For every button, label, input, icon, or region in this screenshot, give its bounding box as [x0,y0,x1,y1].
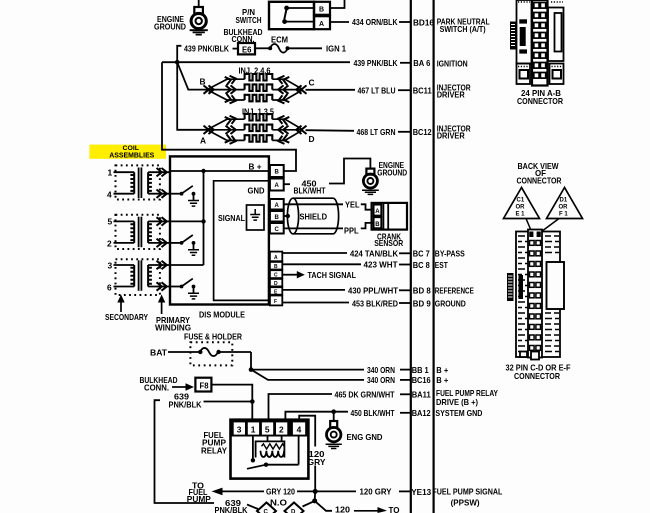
pin BC16 / B+ [412,375,449,385]
pin BA 6 / IGNITION [413,58,467,69]
svg-text:DIS MODULE: DIS MODULE [199,309,245,319]
svg-text:423 WHT: 423 WHT [364,260,399,270]
svg-text:468 LT GRN: 468 LT GRN [357,127,396,137]
oil pressure switch contact D [285,503,304,513]
svg-text:GROUND: GROUND [377,167,407,177]
label BACK VIEW OF CONNECTOR [517,161,562,186]
svg-text:C: C [264,510,269,513]
svg-text:PPL: PPL [344,226,359,236]
svg-text:340 ORN: 340 ORN [367,375,395,385]
label P/N SWITCH [236,7,325,29]
svg-text:F8: F8 [200,381,209,391]
svg-text:ASSEMBLIES: ASSEMBLIES [109,151,154,160]
svg-text:424 TAN/BLK: 424 TAN/BLK [350,249,398,259]
svg-text:BLK/WHT: BLK/WHT [294,185,327,195]
wire shield drain from DIS pin B mid [284,215,288,217]
svg-text:SHIELD: SHIELD [300,211,328,221]
svg-text:F: F [274,299,277,305]
wire to engine ground bolt [198,0,200,7]
relay coil [256,437,285,458]
ECM boundary line right [433,0,435,513]
24 pin A-B connector drawing [510,0,564,86]
DIS pin B (mid) [270,211,284,222]
wire 340 ORN BB1 [400,369,411,371]
svg-text:B: B [275,170,280,176]
svg-text:(PPSW): (PPSW) [451,498,480,508]
svg-text:FUSE & HOLDER: FUSE & HOLDER [184,332,242,342]
pin BC11 / INJECTOR DRIVER [413,82,471,99]
wire left rail down to injector nodes [162,62,296,171]
label PRIMARY WINDING with arrow [155,295,191,333]
svg-text:439 PNK/BLK: 439 PNK/BLK [354,58,398,68]
node to oil pressure switch [314,491,317,501]
wire 453 BLK/RED GROUND [282,302,349,304]
svg-text:DRIVER: DRIVER [437,90,465,100]
svg-text:467 LT BLU: 467 LT BLU [358,85,396,95]
svg-text:OR: OR [516,205,526,211]
svg-text:B +: B + [436,365,448,375]
DIS pin A (low) [270,252,282,262]
svg-text:GRY 120: GRY 120 [266,487,295,497]
wire 340 ORN BC16 [400,379,411,381]
svg-text:EST: EST [435,260,449,270]
svg-text:PNK/BLK: PNK/BLK [215,505,248,513]
svg-text:N.O: N.O [270,498,288,508]
svg-text:GRY: GRY [308,457,326,467]
coil assembly 5-2 transformer T2 [114,217,171,248]
svg-text:A: A [375,209,380,215]
svg-text:ECM: ECM [271,35,288,45]
engine ground bolt G2 [362,169,379,195]
svg-text:YE13: YE13 [411,487,431,497]
engine ground bolt G1 [190,7,208,35]
wire PPL from DIS pin C mid [284,223,374,229]
DIS pin E (low) [270,287,282,295]
svg-text:SECONDARY: SECONDARY [105,312,148,322]
svg-text:3: 3 [108,260,113,270]
P/N switch S1 [269,2,330,29]
svg-text:BA11: BA11 [412,390,431,400]
svg-text:CONNECTOR: CONNECTOR [514,371,560,381]
wire 465 DK GRN/WHT to relay pin 5 [269,394,333,421]
wire 434 ORN/BLK from P/N pin A [330,21,349,23]
svg-text:PNK/BLK: PNK/BLK [169,399,202,409]
ENG GND bolt G3 [326,421,342,449]
svg-text:450 BLK/WHT: 450 BLK/WHT [351,408,396,418]
wire 439 PNK/BLK to BA6 [162,61,350,63]
crank sensor B2 [372,203,407,230]
svg-text:FUEL PUMP SIGNAL: FUEL PUMP SIGNAL [432,487,502,497]
svg-text:BA12: BA12 [412,408,431,418]
pin BC12 / INJECTOR DRIVER [413,124,471,141]
svg-text:BY-PASS: BY-PASS [435,249,465,259]
svg-text:BC11: BC11 [413,85,432,95]
svg-text:5: 5 [265,425,270,435]
svg-text:CONNECTOR: CONNECTOR [517,96,563,106]
svg-text:BC12: BC12 [413,127,432,137]
svg-text:C1: C1 [517,198,525,204]
svg-text:D: D [274,281,278,287]
ECM squiggle wire [255,44,322,53]
24 pin connector pin squares [534,3,546,79]
svg-text:B: B [274,264,278,270]
svg-text:SIGNAL: SIGNAL [218,213,245,223]
leader lines from triangles to connector [526,219,532,232]
svg-text:SYSTEM GND: SYSTEM GND [435,408,482,418]
svg-text:340 ORN: 340 ORN [367,365,395,375]
DIS module inner box [214,181,269,301]
switch SW1 inside DIS with ground [170,186,199,206]
svg-text:465 DK GRN/WHT: 465 DK GRN/WHT [335,390,396,400]
wire to node A [177,62,207,130]
svg-text:DRIVE (B +): DRIVE (B +) [436,397,478,407]
DIS pin F (low) [270,296,282,306]
switch SW3 inside DIS with ground [170,279,199,299]
svg-text:A: A [274,255,278,261]
pin BD 8 / REFERENCE [413,286,474,296]
wire 639 PNK/BLK left rail down to oil switch [155,400,215,503]
svg-text:C: C [309,78,315,88]
B+ rail inside DIS [170,171,270,265]
wire 450 BLK/WHT from DIS pin A to engine ground [284,159,371,185]
arrow into F8 [172,386,186,388]
triangle D1 OR F1 [547,188,583,219]
svg-text:SWITCH: SWITCH [236,15,262,25]
svg-text:BC 8: BC 8 [413,260,430,270]
wire bracket from 439 PNK/BLK down to junction [177,46,181,62]
wire 639 PNK/BLK stub to junction [204,401,253,403]
svg-text:B: B [319,7,324,14]
svg-text:A: A [275,183,280,189]
DIS pin A (top) [270,179,284,191]
svg-text:ENG GND: ENG GND [347,432,383,442]
DIS pin A (mid) [270,199,284,210]
wire relay pin 4 to 120 GRY [299,416,315,447]
svg-text:453 BLK/RED: 453 BLK/RED [352,298,398,308]
svg-text:BD 8: BD 8 [413,286,431,296]
oil pressure switch contact C [257,503,276,513]
svg-text:IGN 1: IGN 1 [326,43,346,53]
label ENGINE GROUND (top-left) [154,14,186,32]
wire BAT feed to B+ rows [251,352,364,370]
svg-text:5: 5 [108,217,113,227]
bulkhead connector E6 [233,43,256,54]
DIS module U1 outline [170,156,269,304]
svg-text:120 GRY: 120 GRY [360,487,392,497]
DIS pin B (low) [270,262,282,270]
pin BD 9 / GROUND [413,298,466,308]
svg-text:BB 1: BB 1 [412,365,429,375]
svg-text:3: 3 [237,425,242,435]
DIS pin C (low) [270,270,282,278]
svg-text:439 PNK/BLK: 439 PNK/BLK [184,44,229,54]
svg-text:GND: GND [248,185,265,195]
svg-text:434 ORN/BLK: 434 ORN/BLK [352,17,398,27]
svg-text:B +: B + [249,161,262,171]
wire 450 BLK/WHT to relay pin 2 [285,412,348,421]
svg-text:OR: OR [559,205,569,211]
svg-text:CONNECTOR: CONNECTOR [517,176,562,186]
svg-text:A: A [319,21,324,28]
svg-text:BD 9: BD 9 [413,298,431,308]
wire 120 to fuel pump signal [315,501,332,511]
wire 430 PPL/WHT REFERENCE [282,289,345,291]
svg-text:GROUND: GROUND [154,22,186,32]
svg-text:REFERENCE: REFERENCE [435,286,474,296]
svg-text:120: 120 [335,505,350,513]
svg-text:RELAY: RELAY [201,445,227,455]
svg-text:SWITCH (A/T): SWITCH (A/T) [440,24,486,34]
svg-text:C: C [274,273,278,279]
svg-text:D: D [291,510,296,513]
node on 450 BLK/WHT to ENG GND [331,409,336,414]
svg-text:B: B [275,215,280,221]
injector group INJ 1,3,5 [200,107,315,146]
svg-text:C: C [275,227,280,233]
bulkhead connector F8 [195,378,211,392]
fuel pump relay K1 [231,420,309,479]
svg-text:D: D [309,134,315,144]
pin YE13 / FUEL PUMP SIGNAL [411,487,502,508]
svg-text:SENSOR: SENSOR [374,238,403,248]
svg-text:YEL: YEL [345,200,360,210]
fuse holder dotted box [190,342,232,365]
pin BC 7 / BY-PASS [413,249,465,259]
wire 468 LT GRN from node D [306,129,355,132]
label SECONDARY with arrow [105,295,148,323]
32 pin C-D or E-F connector drawing [507,230,564,360]
wire TACH SIGNAL with arrow [282,274,297,276]
svg-text:E6: E6 [242,44,252,54]
coil assembly 3-6 transformer T3 [114,260,171,291]
node J1 junction of 439 PNK/BLK [175,60,180,65]
svg-text:D1: D1 [560,198,568,204]
DIS pin D (low) [270,279,282,287]
svg-text:BA 6: BA 6 [413,58,430,68]
wire GRY 120 with left arrow [212,488,223,496]
fuse F1 [168,348,251,356]
svg-text:BAT: BAT [150,347,168,357]
wire junction to node B diagonal [177,62,207,89]
pin BB 1 / B+ [412,365,449,375]
svg-text:2: 2 [279,425,284,435]
svg-text:CONN.: CONN. [144,382,169,392]
pin BC 8 / EST [413,260,449,270]
coil assembly 1-4 dotted box [116,165,160,199]
svg-text:6: 6 [107,282,112,292]
wire to D contact [303,501,315,507]
svg-text:B +: B + [436,375,448,385]
svg-text:A: A [275,203,280,209]
svg-text:A: A [200,136,206,146]
svg-text:BC 7: BC 7 [413,249,430,259]
wire 424 TAN/BLK BY-PASS [282,252,347,254]
wire 467 LT BLU from node C [306,89,356,91]
signal ground box inside DIS [247,205,265,230]
DIS pin C (mid) [270,223,284,234]
wire into C contact [247,505,258,510]
svg-text:F 1: F 1 [559,212,568,218]
svg-text:TACH SIGNAL: TACH SIGNAL [308,270,357,280]
svg-text:4: 4 [297,425,302,435]
svg-text:E 1: E 1 [516,212,526,218]
svg-text:430 PPL/WHT: 430 PPL/WHT [348,286,399,296]
svg-text:DRIVER: DRIVER [437,131,465,141]
DIS pin B (top) [270,165,284,177]
svg-text:1: 1 [251,425,256,435]
svg-text:B: B [200,77,206,87]
switch SW2 inside DIS with ground [170,235,199,255]
shielded cable to crank sensor [287,198,338,234]
svg-text:4: 4 [107,190,112,200]
svg-text:2: 2 [107,239,112,249]
wire diagonal to BC16 row [251,370,364,380]
coil assembly 3-6 dotted box [116,259,160,295]
svg-text:1: 1 [108,168,113,178]
wire F8 to relay pin 1 [211,385,252,421]
wire 120 GRY to YE13 [399,490,411,492]
pin BA12 / SYSTEM GND [412,408,483,418]
coil assembly 5-2 dotted box [116,215,160,249]
svg-text:B: B [375,222,380,228]
relay switch [247,437,299,469]
wire from P/N pin B up [330,0,345,8]
pin BD16 / PARK NEUTRAL SWITCH [413,17,490,34]
coil assembly 1-4 transformer T1 [114,168,171,199]
svg-text:PUMP: PUMP [187,494,211,504]
wire 423 WHT EST [282,263,361,265]
svg-text:IGNITION: IGNITION [437,59,468,69]
COIL ASSEMBLIES highlight [89,145,166,159]
svg-text:TO: TO [389,505,400,513]
injector group INJ 2,4,6 [200,66,315,105]
svg-text:BD16: BD16 [413,17,434,27]
pin BA11 / FUEL PUMP RELAY DRIVE [412,388,499,407]
ECM boundary line left [410,0,412,513]
triangle C1 OR E1 [504,188,540,219]
wire YEL from DIS pin A mid [284,204,374,209]
svg-text:GROUND: GROUND [435,299,466,309]
svg-text:BC16: BC16 [412,375,431,385]
